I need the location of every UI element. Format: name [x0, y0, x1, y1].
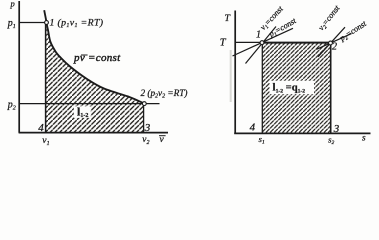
svg-text:pv =const: pv =const [73, 52, 121, 64]
heat/work label box [270, 81, 315, 95]
svg-text:s: s [362, 133, 366, 143]
work label box l_1-2 [74, 106, 91, 118]
s axis (x) [234, 132, 370, 134]
v axis (x) [19, 132, 168, 134]
bar over v axis label [159, 135, 166, 137]
state point 2 [142, 102, 146, 106]
svg-text:4: 4 [38, 122, 44, 134]
left edge s1 line [261, 43, 263, 134]
v1=const line through point 1 [246, 27, 277, 64]
hatched heat/work area [262, 43, 330, 134]
p1 level line [19, 22, 46, 24]
right edge of work area (v2 line) [143, 104, 145, 133]
state point 1 [45, 21, 49, 25]
p2 level line [19, 103, 159, 105]
p1=const line through point 1 [233, 28, 294, 56]
left edge of work area (v1 line) [45, 23, 47, 132]
svg-text:4: 4 [250, 122, 256, 134]
state point 1 [260, 41, 264, 45]
isotherm curve pv=const [44, 10, 144, 103]
svg-text:1: 1 [256, 30, 261, 41]
isotherm line from axis to point 1 [235, 41, 262, 43]
bar through v of pv label [81, 54, 88, 56]
v2=const line through point 2 [318, 27, 345, 57]
isotherm 1-2 (top edge, bold) [262, 42, 331, 44]
svg-text:3: 3 [144, 122, 151, 134]
right edge s2 line [330, 43, 332, 134]
svg-text:3: 3 [333, 123, 340, 135]
hatched work area I_1-2 under isotherm curve [46, 23, 144, 133]
p2=const line through point 2 [317, 34, 352, 50]
state point 2 [329, 41, 333, 45]
svg-text:p: p [10, 0, 15, 8]
T axis (y) [234, 11, 236, 134]
faint scanner streak [230, 50, 232, 102]
svg-text:2: 2 [332, 41, 337, 52]
p axis (y) [18, 1, 20, 133]
